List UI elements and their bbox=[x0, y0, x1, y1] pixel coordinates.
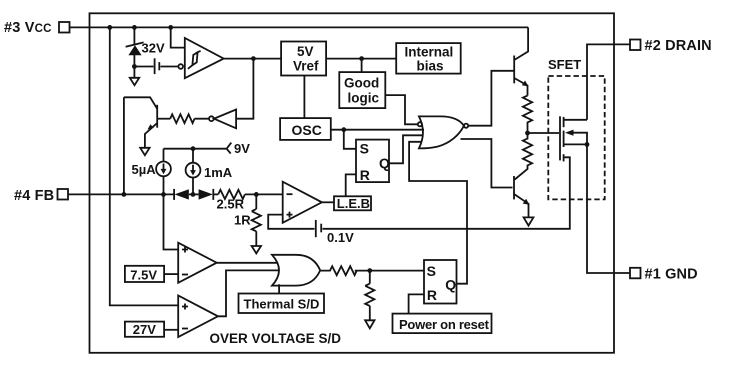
wire latch2 Q feedback to NOR input bbox=[409, 142, 467, 284]
node UVLO output junction bbox=[251, 56, 256, 61]
svg-text:Internal: Internal bbox=[405, 45, 454, 60]
IC outer border bbox=[90, 13, 615, 353]
resistor 2.5R bbox=[218, 190, 245, 199]
svg-text:9V: 9V bbox=[234, 141, 250, 156]
latch U2 S-R box bbox=[424, 260, 457, 304]
op-amp error comparator bbox=[283, 182, 322, 223]
svg-text:L.E.B: L.E.B bbox=[337, 196, 370, 211]
diode D1 (cathode left) bbox=[174, 189, 199, 200]
svg-text:#2 DRAIN: #2 DRAIN bbox=[645, 38, 712, 54]
node OSC line to latch S bbox=[341, 127, 346, 132]
svg-text:OVER VOLTAGE S/D: OVER VOLTAGE S/D bbox=[210, 331, 342, 346]
svg-text:bias: bias bbox=[417, 58, 444, 73]
svg-text:32V: 32V bbox=[142, 41, 165, 56]
wire UVLO output to 5V Vref bbox=[224, 58, 281, 60]
pin #2 DRAIN square bbox=[630, 40, 641, 51]
svg-text:R: R bbox=[427, 287, 437, 303]
wire FB line bbox=[68, 193, 174, 195]
Good logic box bbox=[339, 72, 385, 108]
resistor upper driver bbox=[523, 96, 532, 133]
node driver midpoint bbox=[525, 131, 530, 136]
Internal bias box bbox=[396, 43, 461, 74]
transistor Q3 lower driver NPN bbox=[514, 176, 530, 217]
svg-text:SFET: SFET bbox=[548, 57, 581, 72]
op-amp comparator 27V bbox=[178, 296, 218, 338]
Thermal S/D box bbox=[239, 294, 325, 314]
svg-text:Power on reset: Power on reset bbox=[399, 317, 490, 332]
wire latch Q to NOR input bbox=[389, 135, 424, 163]
node VCC rail junction 1 bbox=[107, 25, 112, 30]
L.E.B box bbox=[334, 196, 371, 210]
node VCC rail junction 2 bbox=[132, 25, 137, 30]
battery 0.1V bbox=[316, 220, 321, 237]
resistor at PNP base bbox=[170, 114, 209, 123]
node SFET source junction bbox=[585, 142, 590, 147]
NOR gate driver logic bbox=[418, 116, 468, 148]
latch U1 S-R box bbox=[356, 140, 389, 183]
ground below lower driver bbox=[524, 217, 534, 225]
wire VCC rail down to 27V comparator bbox=[110, 27, 178, 305]
wire junction down to Good logic bbox=[361, 59, 363, 73]
svg-text:OSC: OSC bbox=[292, 122, 322, 138]
wire Vref to Internal bias bbox=[326, 58, 396, 60]
7.5V box bbox=[125, 266, 164, 282]
svg-text:0.1V: 0.1V bbox=[327, 230, 354, 245]
wire PNP collector down to FB node bbox=[123, 97, 125, 194]
wire driver midpoint to SFET gate bbox=[528, 132, 560, 134]
transistor Q2 upper driver NPN bbox=[514, 27, 528, 95]
wire 9V supply rail to current sources bbox=[164, 148, 227, 150]
wire OR output to resistor bbox=[320, 266, 424, 275]
wire resistor to PNP base bbox=[158, 118, 170, 120]
node diode midpoint bbox=[191, 192, 196, 197]
svg-text:5V: 5V bbox=[297, 44, 314, 59]
zener diode 32V bbox=[126, 27, 144, 77]
wire plus input to 0.1V battery bbox=[268, 215, 314, 229]
ground below zener bbox=[130, 78, 139, 85]
wire SFET source to pin #1 GND bbox=[587, 144, 630, 273]
current source 5uA bbox=[156, 149, 171, 195]
terminal 9V bracket bbox=[227, 143, 232, 154]
wire VCC junction3 to comparator top input bbox=[171, 27, 185, 47]
svg-text:5µA: 5µA bbox=[132, 162, 157, 177]
node latch2 S input junction bbox=[367, 268, 372, 273]
node divider junction bbox=[254, 192, 259, 197]
svg-text:Q: Q bbox=[379, 155, 390, 171]
ground below 1R bbox=[252, 246, 261, 253]
svg-text:logic: logic bbox=[348, 91, 380, 106]
wire NOR output to upper driver base bbox=[468, 71, 513, 126]
svg-text:R: R bbox=[360, 167, 370, 183]
wire comparator2 output to OR gate bbox=[218, 270, 279, 316]
wire error amp output to L.E.B bbox=[322, 201, 334, 203]
battery offset at UVLO comparator input bbox=[137, 58, 179, 74]
wire latch2 R to Power on reset bbox=[409, 294, 424, 313]
svg-text:1mA: 1mA bbox=[204, 165, 233, 180]
node zener-battery junction bbox=[132, 64, 137, 69]
transistor SenseFET bbox=[560, 116, 587, 161]
OR gate shutdown bbox=[272, 255, 320, 286]
op-amp UVLO Schmitt comparator bbox=[178, 38, 223, 78]
wire OSC junction to latch S input bbox=[344, 130, 356, 149]
svg-text:#1 GND: #1 GND bbox=[645, 266, 698, 282]
resistor lower driver bbox=[515, 133, 532, 180]
wire FB down to 7.5V comparator bbox=[164, 194, 179, 249]
svg-text:27V: 27V bbox=[133, 322, 156, 337]
wire OSC to NOR (bold) bbox=[331, 129, 424, 131]
pin #4 FB square bbox=[58, 189, 69, 200]
node 1mA tap on 9V rail bbox=[191, 146, 196, 151]
svg-text:#3 VCC: #3 VCC bbox=[4, 20, 52, 36]
wire UVLO output down to inverter input bbox=[236, 59, 253, 119]
resistor 1R bbox=[252, 194, 261, 246]
OSC box bbox=[280, 118, 331, 140]
svg-text:S: S bbox=[360, 141, 369, 157]
node VCC rail junction 3 bbox=[168, 25, 173, 30]
inverter (points left) bbox=[209, 110, 236, 129]
wire Good logic to NOR input bbox=[385, 95, 417, 124]
ground below pulldown resistor bbox=[365, 320, 374, 328]
resistor pulldown at latch2 S bbox=[365, 271, 374, 321]
node Vref-GoodLogic junction bbox=[359, 56, 364, 61]
wire 2.5R to error amp bbox=[245, 193, 283, 195]
wire 7.5V box to comparator bbox=[164, 273, 179, 275]
wire NOR lower tap to lower driver base bbox=[461, 139, 513, 188]
transistor Q1 PNP clamp bbox=[124, 97, 157, 148]
wire latch R to L.E.B bbox=[346, 174, 356, 196]
27V box bbox=[125, 322, 164, 337]
ground below PNP emitter bbox=[140, 148, 149, 155]
svg-text:Good: Good bbox=[344, 75, 379, 90]
5V Vref box bbox=[281, 42, 326, 76]
diode D2 (cathode right) bbox=[199, 189, 219, 200]
wire current sense rail to SFET source bbox=[323, 157, 570, 229]
Power on reset box bbox=[393, 314, 492, 334]
wire Vref to OSC bbox=[303, 75, 305, 118]
svg-text:Thermal S/D: Thermal S/D bbox=[244, 297, 320, 312]
svg-text:Q: Q bbox=[445, 276, 456, 292]
current source 1mA bbox=[186, 149, 201, 195]
wire Thermal S/D to OR gate bbox=[278, 284, 280, 293]
wire comparator1 output to OR gate bbox=[217, 262, 278, 264]
op-amp comparator 7.5V bbox=[178, 243, 217, 283]
svg-text:#4 FB: #4 FB bbox=[14, 188, 54, 204]
svg-text:7.5V: 7.5V bbox=[130, 267, 157, 282]
svg-text:Vref: Vref bbox=[293, 58, 319, 73]
svg-text:2.5R: 2.5R bbox=[217, 197, 245, 212]
svg-text:1R: 1R bbox=[234, 213, 251, 228]
pin #3 VCC square bbox=[59, 22, 70, 33]
svg-text:S: S bbox=[427, 263, 436, 279]
node FB junction at 5uA source bbox=[161, 192, 166, 197]
wire 27V box to comparator bbox=[164, 329, 179, 331]
node FB junction at PNP collector bbox=[122, 192, 127, 197]
wire VCC pin to rail bbox=[70, 26, 529, 28]
SFET dashed box bbox=[548, 76, 604, 199]
wire SFET drain to pin #2 bbox=[587, 44, 630, 119]
pin #1 GND square bbox=[630, 268, 641, 279]
